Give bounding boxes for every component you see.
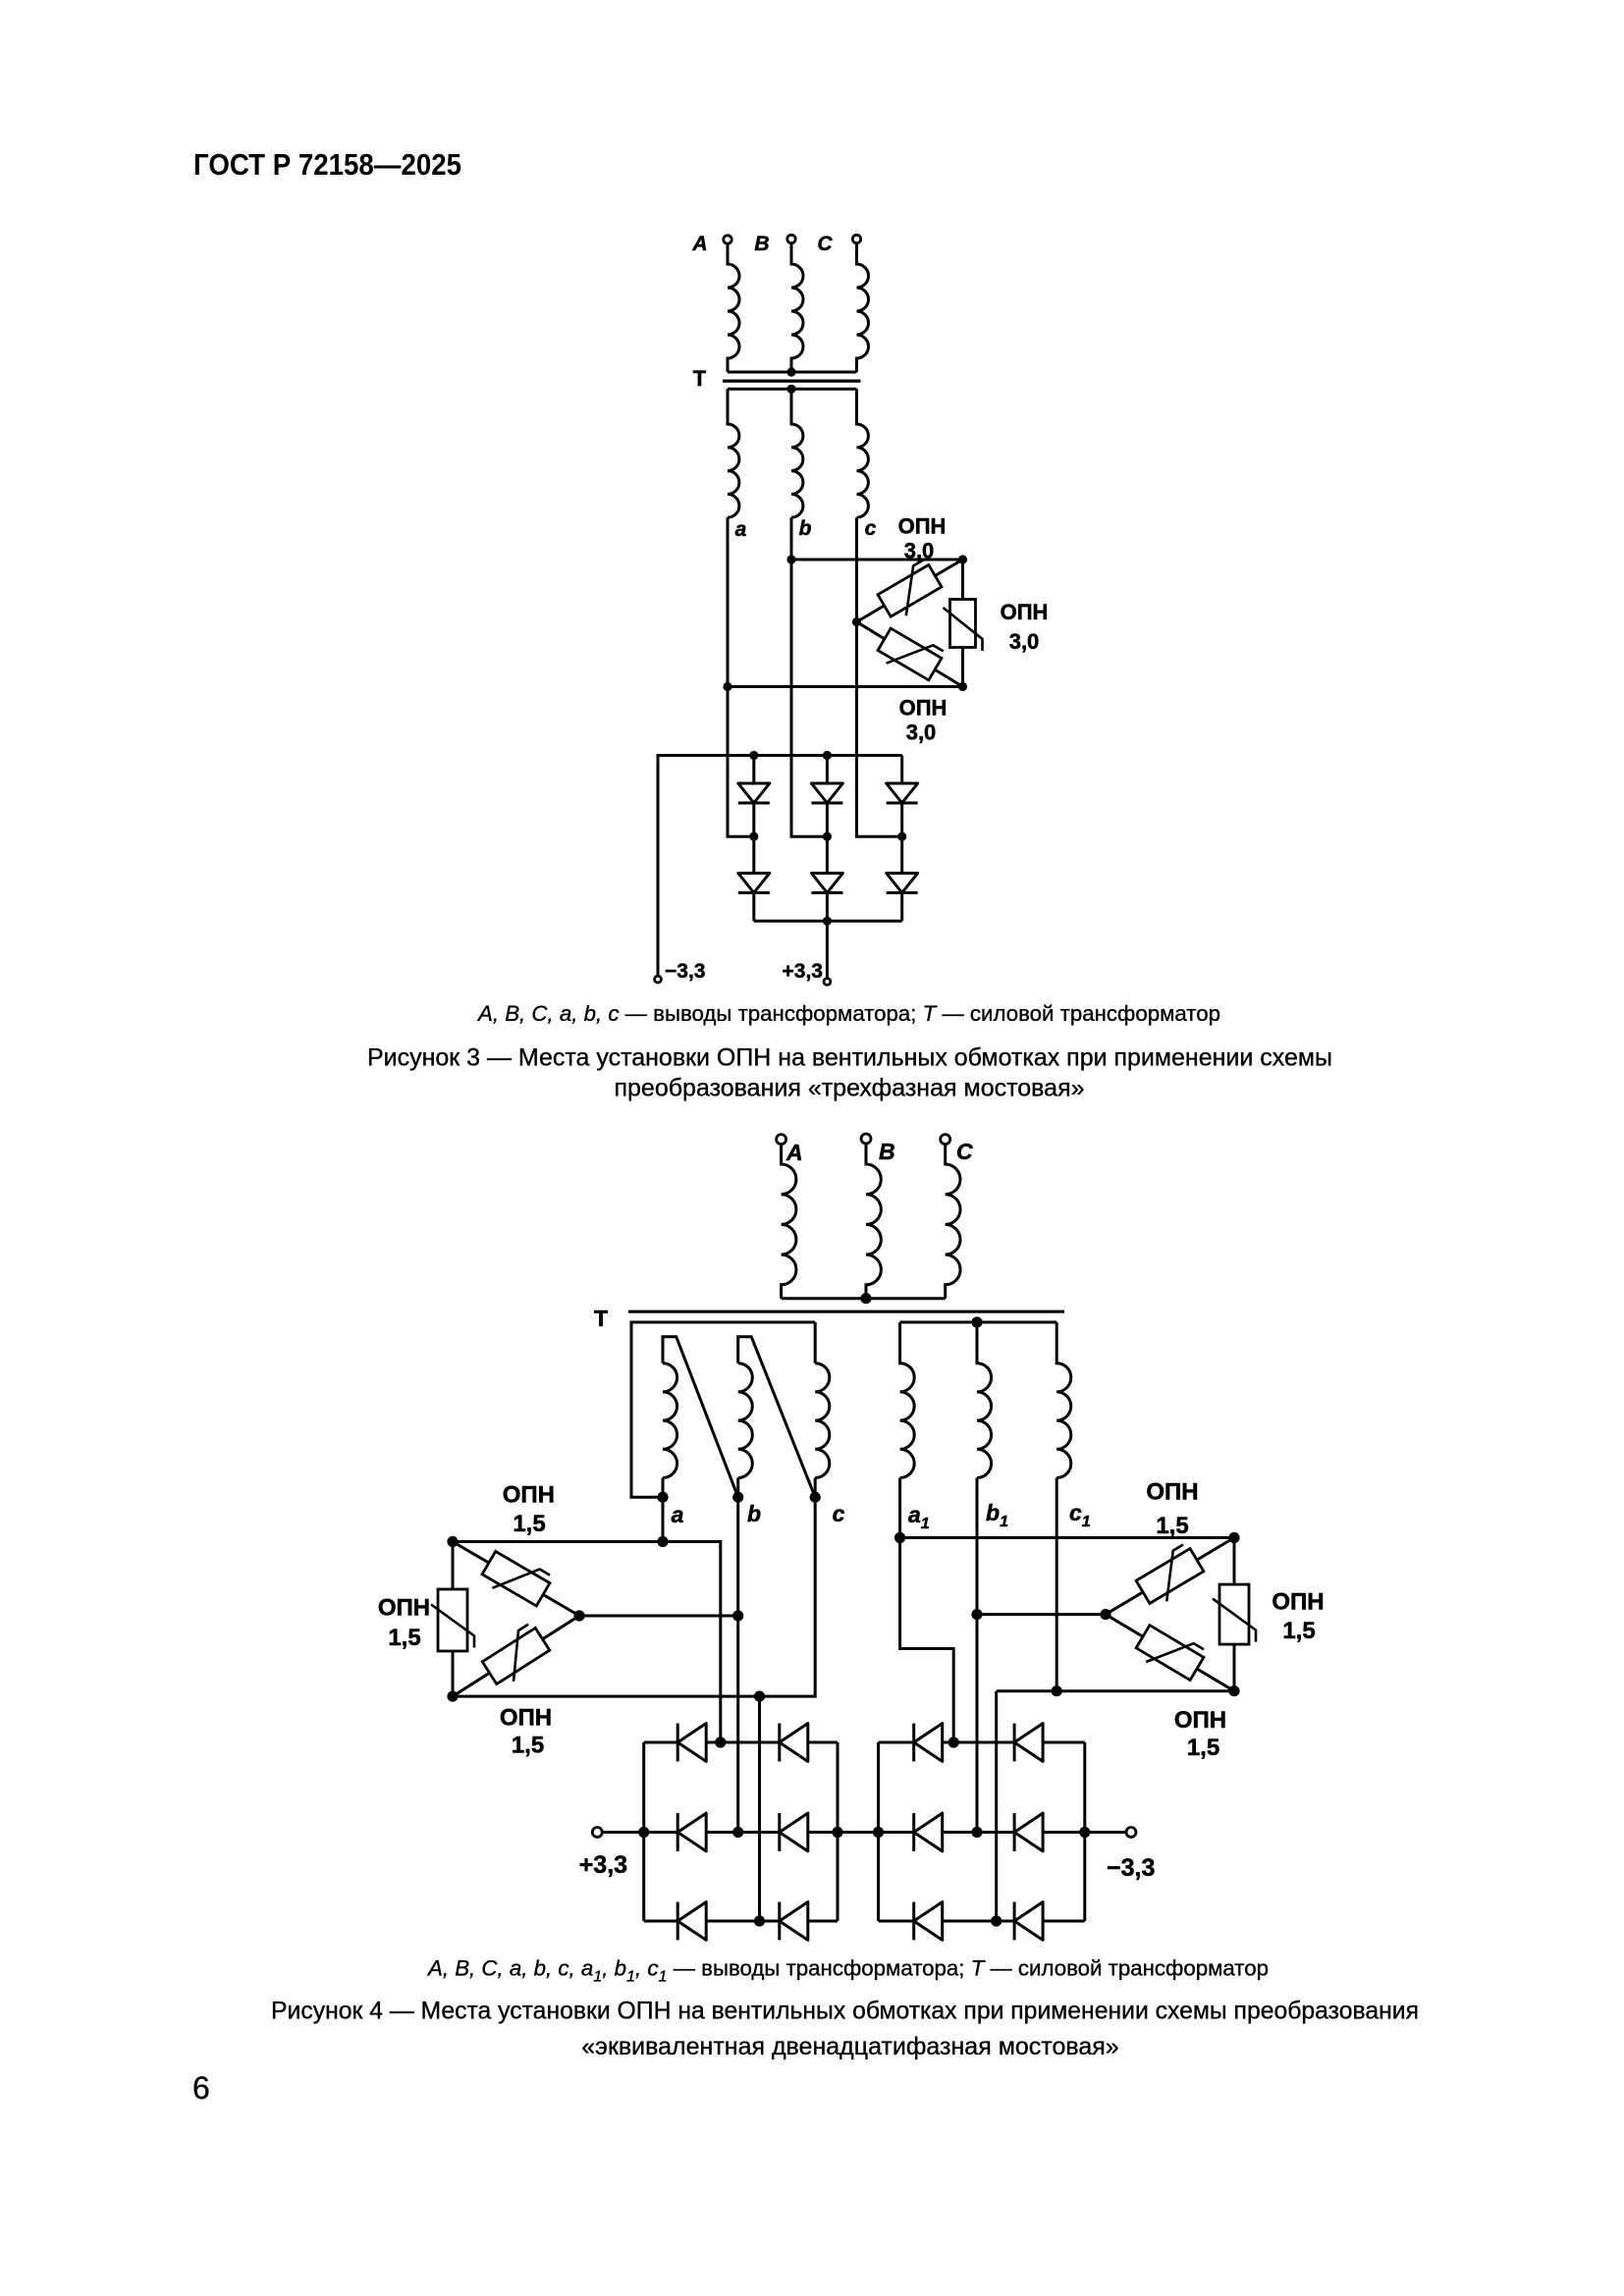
junction -dc rail (fig4): [1079, 1827, 1090, 1838]
transformer T primary winding A (fig4): [782, 1145, 796, 1299]
svg-text:Т: Т: [693, 366, 707, 391]
wire: negative dc bus (fig3): [658, 756, 902, 976]
transformer T secondary winding c (fig3): [857, 389, 869, 517]
svg-text:c1: c1: [1069, 1500, 1091, 1530]
svg-text:А, В, С, a, b, c — выводы тран: А, В, С, a, b, c — выводы трансформатора…: [476, 1001, 1220, 1026]
diode VD14 (fig4): [1013, 1724, 1016, 1762]
wye winding a1 (fig4): [900, 1322, 915, 1478]
svg-text:ОПН: ОПН: [503, 1482, 555, 1509]
transformer T core (fig4): [628, 1310, 1064, 1313]
svg-text:B: B: [754, 233, 769, 255]
junction a / delta bottom (fig3): [723, 682, 731, 691]
diode VD12 (fig4): [778, 1902, 781, 1941]
wire: OPN left upper diagonal (fig4): [453, 1542, 579, 1617]
svg-text:a1: a1: [908, 1502, 930, 1532]
diode VD9 (fig4): [677, 1813, 679, 1851]
wire: OPN left lower diagonal (fig4): [453, 1616, 579, 1696]
svg-text:C: C: [817, 233, 833, 255]
wire: delta frame c-top to a-bottom (fig4): [631, 1322, 815, 1497]
diode VD4 column a lower (fig3): [752, 836, 755, 873]
wire: phase c down to rectifier (fig3): [857, 517, 902, 836]
wire: phase b1 down to bridge (fig4 right): [976, 1478, 979, 1833]
wire: left bridge top row (fig4): [644, 1741, 838, 1744]
wire: wye star point (fig4): [900, 1321, 1057, 1324]
junction +dc rail (fig4): [638, 1827, 649, 1838]
junction c / delta left vertex (fig3): [852, 617, 861, 626]
svg-text:C: C: [956, 1139, 973, 1164]
svg-text:А, В, С, a, b, c, a1, b1, c1 —: А, В, С, a, b, c, a1, b1, c1 — выводы тр…: [426, 1956, 1269, 1986]
svg-text:Т: Т: [594, 1306, 608, 1331]
junction b/VD2-VD5 (fig3): [823, 832, 832, 841]
junction bus/VD1 (fig3): [749, 751, 758, 760]
wire: phase b down to rectifier (fig3): [791, 517, 827, 836]
diode VD3 column c upper (fig3): [900, 756, 903, 784]
surge arrester OPN 1,5 left-upper (fig4): [479, 1545, 554, 1612]
svg-text:3,0: 3,0: [906, 721, 937, 745]
svg-text:−3,3: −3,3: [1107, 1854, 1155, 1882]
wire: OPN right vertical side (fig4): [1233, 1538, 1236, 1691]
terminal +3,3 (fig4): [602, 1831, 643, 1834]
junction delta-left top vertex (fig4): [447, 1536, 458, 1547]
svg-text:c: c: [865, 517, 877, 540]
terminal +3,3 (fig3): [826, 921, 829, 978]
junction bus/VD2 (fig3): [823, 751, 832, 760]
junction c/bottom row (fig4): [754, 1915, 765, 1926]
wire: OPN delta lower diagonal (fig3): [857, 622, 963, 687]
wire: positive dc bus (fig3): [754, 920, 902, 923]
svg-text:1,5: 1,5: [513, 1511, 545, 1537]
surge arrester OPN 1,5 left-vertical (fig4): [431, 1589, 474, 1651]
wire: phase a down to rectifier (fig3): [728, 517, 754, 836]
junction a/top row (fig4): [715, 1736, 726, 1747]
surge arrester OPN 1,5 right-lower (fig4): [1133, 1620, 1208, 1686]
transformer T primary winding C (fig4): [946, 1145, 960, 1299]
svg-text:a: a: [672, 1502, 684, 1527]
diode VD16 (fig4): [1013, 1813, 1016, 1851]
svg-text:1,5: 1,5: [1156, 1513, 1188, 1539]
transformer T primary winding B (fig3): [791, 243, 803, 372]
diode VD6 column c lower (fig3): [900, 836, 903, 873]
surge arrester OPN 1,5 right-vertical (fig4): [1213, 1584, 1256, 1644]
svg-text:Рисунок 4 — Места установки ОП: Рисунок 4 — Места установки ОПН на венти…: [271, 1998, 1419, 2025]
junction primary neutral (fig4): [860, 1293, 871, 1304]
node C terminal (fig3): [852, 235, 860, 242]
svg-text:1,5: 1,5: [1187, 1735, 1219, 1761]
svg-text:A: A: [691, 233, 707, 255]
node C terminal (fig4): [941, 1135, 950, 1145]
junction c1/bottom row (fig4): [991, 1915, 1001, 1926]
surge arrester OPN 3,0 upper (fig3): [875, 559, 946, 622]
wye winding b1 (fig4): [977, 1322, 992, 1478]
junction c-feeder/bottom line (fig4): [754, 1691, 765, 1702]
diode VD13 (fig4): [912, 1724, 915, 1762]
delta winding a (fig4): [663, 1337, 738, 1498]
transformer T primary winding C (fig3): [857, 243, 869, 372]
diode VD1 column a upper (fig3): [752, 756, 755, 784]
transformer T primary winding B (fig4): [866, 1144, 881, 1299]
surge arrester OPN 3,0 right (fig3): [944, 600, 983, 652]
svg-text:1,5: 1,5: [512, 1733, 544, 1759]
junction wye neutral (fig4): [971, 1316, 982, 1327]
svg-text:b: b: [747, 1501, 761, 1526]
junction primary neutral (fig3): [786, 367, 795, 376]
wire: c1 feeder down to bridge (fig4 right): [995, 1691, 998, 1921]
svg-text:«эквивалентная двенадцатифазна: «эквивалентная двенадцатифазная мостовая…: [581, 2033, 1118, 2060]
wire: primary star connection (fig4): [782, 1297, 946, 1300]
junction a1/top line (fig4): [894, 1532, 905, 1543]
svg-text:1,5: 1,5: [1282, 1618, 1315, 1644]
wire: left bridge right rail (fig4): [837, 1742, 839, 1921]
junction delta-left bottom vertex (fig4): [447, 1691, 458, 1702]
svg-text:ОПН: ОПН: [1174, 1707, 1226, 1734]
wire: OPN delta upper diagonal (fig3): [857, 560, 963, 622]
wire: secondary star connection (fig3): [728, 388, 857, 391]
wye winding c1 (fig4): [1056, 1322, 1071, 1478]
svg-text:b: b: [799, 517, 812, 540]
svg-text:ОПН: ОПН: [1146, 1479, 1198, 1506]
svg-text:−3,3: −3,3: [665, 960, 705, 983]
junction rail link right (fig4): [873, 1827, 884, 1838]
junction b/mid row (fig4): [732, 1827, 743, 1838]
wire: left bridge middle row (fig4): [644, 1831, 879, 1834]
wire: OPN left middle line b (fig4): [579, 1615, 738, 1618]
svg-text:b1: b1: [986, 1500, 1008, 1530]
diode VD17 (fig4): [912, 1902, 915, 1941]
junction a/top line (fig4): [657, 1536, 668, 1547]
svg-text:+3,3: +3,3: [579, 1851, 627, 1879]
transformer T secondary winding a (fig3): [728, 389, 739, 517]
svg-text:+3,3: +3,3: [783, 960, 823, 983]
wire: right bridge top row (fig4): [879, 1741, 1085, 1744]
wire: OPN delta right side (fig3): [961, 560, 964, 687]
transformer T secondary winding b (fig3): [791, 389, 803, 517]
svg-text:B: B: [879, 1139, 895, 1164]
wire: right bridge bottom row (fig4): [879, 1920, 1085, 1923]
wire: OPN left top line / a feeder (fig4): [453, 1542, 721, 1743]
wire: OPN right lower diagonal (fig4): [1106, 1615, 1234, 1691]
wire: right bridge right rail (fig4): [1083, 1742, 1086, 1921]
svg-text:3,0: 3,0: [904, 539, 935, 563]
node B terminal (fig4): [861, 1134, 871, 1144]
junction b1/mid row (fig4): [971, 1827, 982, 1838]
diode VD18 (fig4): [1013, 1902, 1016, 1941]
node A terminal (fig4): [777, 1135, 786, 1145]
junction c/VD3-VD6 (fig3): [897, 832, 906, 841]
svg-text:A: A: [785, 1140, 803, 1165]
wire: OPN delta top side b (fig3): [791, 559, 963, 561]
diode VD15 (fig4): [912, 1813, 915, 1851]
wire: OPN right bottom line (fig4): [997, 1478, 1234, 1691]
svg-text:ГОСТ Р 72158—2025: ГОСТ Р 72158—2025: [193, 147, 461, 182]
svg-text:ОПН: ОПН: [898, 514, 947, 539]
wire: right bridge left rail (fig4): [877, 1742, 880, 1921]
delta winding b (fig4): [738, 1337, 816, 1498]
junction rail link left (fig4): [832, 1827, 842, 1838]
surge arrester OPN 1,5 left-lower (fig4): [478, 1623, 553, 1690]
delta winding c (fig4): [815, 1322, 830, 1497]
wire: OPN delta bottom side a (fig3): [728, 685, 963, 688]
junction c1/bottom line (fig4): [1052, 1685, 1062, 1696]
transformer T core (fig3): [723, 380, 861, 383]
wire: left bridge left rail (fig4): [642, 1742, 645, 1921]
wire: OPN right upper diagonal (fig4): [1106, 1538, 1234, 1615]
svg-text:1,5: 1,5: [388, 1625, 420, 1651]
junction delta-left mid vertex (fig4): [573, 1610, 584, 1621]
junction a/VD1-VD4 (fig3): [749, 832, 758, 841]
diode VD10 (fig4): [778, 1813, 781, 1851]
junction delta top-right (fig3): [958, 555, 967, 563]
wire: right bridge middle row (fig4): [879, 1831, 1127, 1834]
diode VD8 (fig4): [778, 1724, 781, 1762]
svg-text:ОПН: ОПН: [378, 1595, 430, 1622]
diode VD2 column b upper (fig3): [826, 756, 829, 784]
wire: OPN left bottom line / c feeder (fig4): [453, 1497, 815, 1696]
junction b / delta top (fig3): [786, 555, 795, 563]
wire: phase b down to bridge (fig4 left): [736, 1497, 739, 1832]
junction delta-right left vertex (fig4): [1100, 1609, 1110, 1620]
junction b1/mid line (fig4): [971, 1609, 982, 1620]
node A terminal (fig3): [724, 236, 731, 243]
wire: OPN right middle line b1 (fig4): [977, 1613, 1106, 1616]
junction secondary neutral (fig3): [786, 385, 795, 394]
junction b/mid line (fig4): [732, 1610, 743, 1621]
wire: primary star connection (fig3): [728, 371, 857, 374]
junction delta-right top vertex (fig4): [1228, 1532, 1239, 1543]
svg-text:a: a: [735, 518, 747, 541]
terminal -3,3 (fig4): [1126, 1828, 1136, 1838]
wire: OPN right top line (fig4): [900, 1536, 1234, 1539]
svg-text:6: 6: [192, 2070, 210, 2106]
wire: c feeder down to bridge (fig4 left): [758, 1696, 761, 1921]
junction delta-right bottom vertex (fig4): [1228, 1685, 1239, 1696]
svg-text:ОПН: ОПН: [500, 1705, 552, 1732]
wire: left bridge bottom row (fig4): [644, 1920, 838, 1923]
svg-text:3,0: 3,0: [1009, 629, 1040, 654]
diode VD5 column b lower (fig3): [826, 836, 829, 873]
junction a1/top row (fig4): [948, 1736, 959, 1747]
junction a (fig4): [657, 1492, 668, 1503]
node B terminal (fig3): [787, 235, 795, 242]
svg-text:ОПН: ОПН: [1001, 600, 1049, 624]
svg-text:c: c: [833, 1501, 845, 1526]
svg-text:преобразования «трехфазная мос: преобразования «трехфазная мостовая»: [614, 1075, 1084, 1102]
diode VD7 (fig4): [677, 1724, 679, 1762]
wire: a1 to OPN top line (fig4 right): [900, 1478, 954, 1743]
svg-text:ОПН: ОПН: [899, 696, 947, 721]
junction +dc (fig3): [823, 917, 832, 926]
junction c (fig4): [810, 1492, 821, 1503]
wire: phase a to OPN line (fig4 left): [662, 1497, 665, 1541]
diode VD11 (fig4): [677, 1902, 679, 1941]
transformer T primary winding A (fig3): [728, 243, 739, 372]
svg-text:Рисунок 3 — Места установки ОП: Рисунок 3 — Места установки ОПН на венти…: [367, 1044, 1332, 1072]
surge arrester OPN 3,0 lower (fig3): [875, 622, 946, 686]
terminal -3,3 (fig3): [655, 976, 662, 983]
svg-text:ОПН: ОПН: [1272, 1589, 1324, 1616]
junction b (fig4): [732, 1492, 743, 1503]
wire: OPN left vertical side (fig4): [452, 1542, 455, 1697]
surge arrester OPN 1,5 right-upper (fig4): [1133, 1543, 1208, 1610]
junction delta bottom-right (fig3): [958, 682, 967, 691]
